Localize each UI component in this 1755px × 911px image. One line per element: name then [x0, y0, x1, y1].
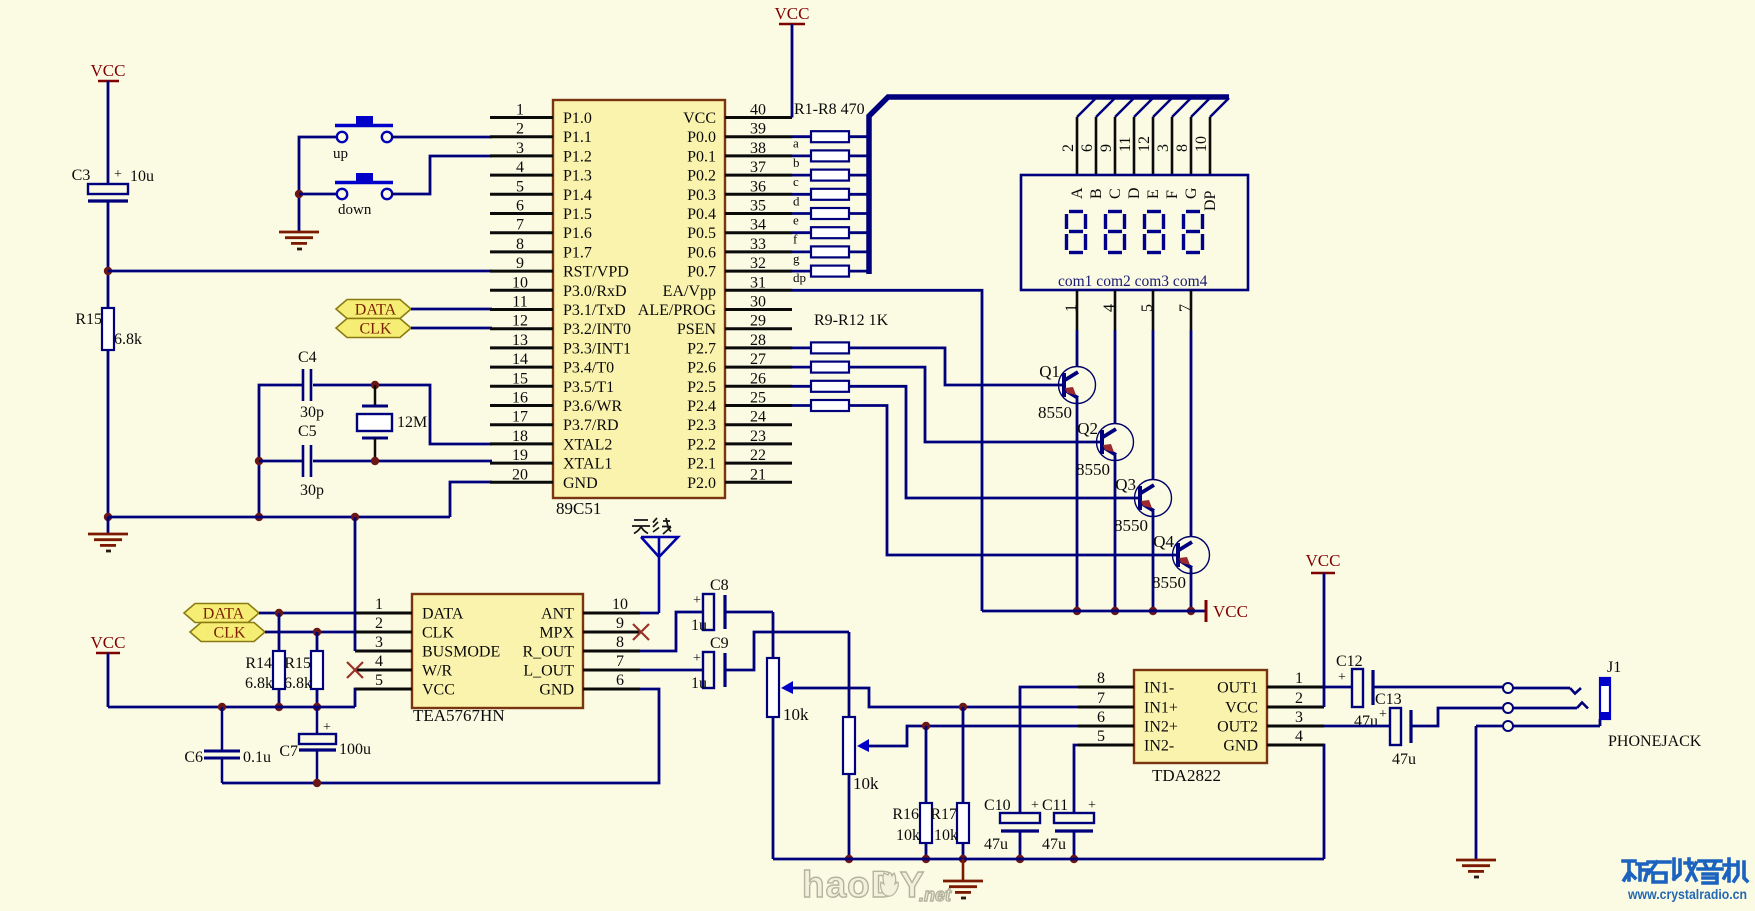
bus entry seg e	[1153, 98, 1172, 117]
svg-text:P0.0: P0.0	[687, 129, 716, 146]
wire R4 to bus	[849, 193, 867, 196]
svg-text:31: 31	[750, 274, 766, 291]
svg-text:4: 4	[1101, 304, 1118, 312]
svg-text:47u: 47u	[984, 836, 1008, 853]
wire Q2 emitter	[1114, 455, 1117, 611]
power symbol VCC (transistor rail)	[1206, 600, 1248, 622]
wire R12 to Q4 base	[849, 406, 1176, 556]
connector J1 phonejack	[1600, 659, 1702, 750]
junction ground rail left	[104, 513, 112, 521]
svg-text:IN1+: IN1+	[1144, 700, 1178, 717]
svg-text:10k: 10k	[934, 827, 958, 844]
IC U2 pin names	[422, 606, 574, 699]
transistor Q2	[1076, 419, 1134, 479]
svg-text:com1 com2 com3 com4: com1 com2 com3 com4	[1058, 273, 1208, 290]
svg-text:C8: C8	[710, 577, 729, 594]
wire P0.2 to R3	[792, 174, 811, 177]
svg-text:up: up	[333, 146, 348, 162]
wire com2 to Q2	[1114, 330, 1117, 424]
junction R17 rail	[959, 855, 967, 863]
svg-text:7: 7	[516, 217, 524, 234]
junction R16 rail	[922, 855, 930, 863]
wire P2.4 to R12	[792, 404, 811, 407]
svg-text:R15: R15	[284, 655, 311, 672]
junction node RST	[104, 267, 112, 275]
capacitor C6	[184, 707, 271, 783]
junction down button left	[295, 190, 303, 198]
wire down button left	[299, 193, 338, 196]
junction R15 rail	[313, 703, 321, 711]
flag CLK (MCU)	[336, 319, 411, 338]
svg-text:25: 25	[750, 390, 766, 407]
wire up button left	[299, 137, 337, 231]
svg-text:ALE/PROG: ALE/PROG	[638, 302, 717, 319]
wire P2.5 to R11	[792, 385, 811, 388]
svg-text:1: 1	[1063, 304, 1080, 312]
resistor R9	[811, 342, 849, 353]
svg-text:P3.3/INT1: P3.3/INT1	[563, 340, 631, 357]
svg-text:12: 12	[1136, 136, 1153, 152]
svg-text:P1.1: P1.1	[563, 129, 592, 146]
junction Q4 emitter rail	[1187, 607, 1195, 615]
svg-text:P0.2: P0.2	[687, 168, 716, 185]
svg-text:40: 40	[750, 102, 766, 119]
wire P0.4 to R5	[792, 212, 811, 215]
svg-text:P1.6: P1.6	[563, 225, 592, 242]
svg-text:A: A	[1069, 187, 1086, 199]
svg-text:47u: 47u	[1042, 836, 1066, 853]
wire R15 bottom	[316, 689, 319, 707]
svg-text:39: 39	[750, 121, 766, 138]
svg-text:+: +	[693, 651, 701, 666]
wire pin40 VCC	[791, 24, 794, 118]
svg-text:11: 11	[1117, 137, 1134, 152]
svg-text:P0.4: P0.4	[687, 206, 716, 223]
resistor R5	[793, 208, 849, 228]
svg-text:C: C	[1107, 188, 1124, 199]
svg-text:8550: 8550	[1114, 516, 1148, 535]
svg-text:20: 20	[512, 466, 528, 483]
svg-text:+: +	[114, 167, 122, 182]
jack pin tip circle	[1503, 683, 1513, 693]
wire tip contact	[1513, 688, 1581, 694]
wire Q4 emitter	[1190, 568, 1193, 611]
svg-text:C9: C9	[710, 635, 729, 652]
svg-text:P3.1/TxD: P3.1/TxD	[563, 302, 626, 319]
svg-text:P1.2: P1.2	[563, 148, 592, 165]
resistor R17	[930, 803, 969, 844]
junction XTAL1 left	[255, 457, 263, 465]
display pin 2	[1060, 117, 1077, 175]
svg-text:R9-R12 1K: R9-R12 1K	[814, 312, 889, 329]
svg-text:4: 4	[375, 653, 383, 670]
svg-text:P2.6: P2.6	[687, 360, 716, 377]
svg-text:P0.6: P0.6	[687, 244, 716, 261]
svg-text:36: 36	[750, 178, 766, 195]
svg-text:Q3: Q3	[1115, 475, 1136, 494]
svg-text:P3.2/INT0: P3.2/INT0	[563, 321, 631, 338]
wire com4 to Q4	[1190, 330, 1193, 537]
svg-text:P1.5: P1.5	[563, 206, 592, 223]
display pin 11	[1117, 117, 1134, 175]
display pin 10	[1193, 117, 1210, 175]
svg-text:R_OUT: R_OUT	[522, 644, 574, 661]
bus entry seg g	[1191, 98, 1210, 117]
wire pot2 wiper	[869, 726, 1078, 746]
svg-text:12: 12	[512, 313, 528, 330]
svg-text:5: 5	[516, 178, 524, 195]
wire TDA ground rail	[773, 745, 1324, 859]
wire ring contact	[1513, 703, 1588, 709]
power symbol VCC (TEA)	[91, 633, 126, 653]
svg-text:www.crystalradio.cn: www.crystalradio.cn	[1627, 886, 1747, 902]
svg-text:8550: 8550	[1152, 573, 1186, 592]
svg-text:VCC: VCC	[91, 633, 126, 652]
svg-text:1: 1	[375, 596, 383, 613]
display pin 12	[1136, 117, 1153, 175]
junction Q2 emitter rail	[1111, 607, 1119, 615]
wire TEA ground rail	[222, 689, 659, 783]
wire pot2 bottom	[848, 774, 851, 859]
svg-text:OUT2: OUT2	[1217, 719, 1258, 736]
svg-text:dp: dp	[793, 270, 806, 285]
svg-text:26: 26	[750, 370, 766, 387]
flag CLK (TEA)	[190, 623, 265, 642]
svg-text:6.8k: 6.8k	[114, 331, 142, 348]
svg-text:100u: 100u	[339, 741, 371, 758]
IC U1 left pins 1-20	[490, 102, 553, 484]
svg-text:22: 22	[750, 447, 766, 464]
wire antenna to ANT	[640, 612, 659, 615]
wire RST net	[108, 270, 492, 273]
svg-text:P0.5: P0.5	[687, 225, 716, 242]
svg-text:C4: C4	[298, 349, 317, 366]
svg-text:TDA2822: TDA2822	[1152, 766, 1221, 785]
junction R16 top	[922, 722, 930, 730]
jack pin sleeve circle	[1503, 721, 1513, 731]
svg-text:10: 10	[1193, 136, 1210, 152]
junction pot2 rail	[845, 855, 853, 863]
bus entry seg c	[1115, 98, 1134, 117]
IC U3 TDA2822 body	[1134, 670, 1267, 785]
display DS1 body	[1021, 175, 1248, 290]
power symbol VCC (pin40)	[775, 4, 810, 24]
wire R9 to Q1 base	[849, 348, 1062, 385]
jack pin ring circle	[1503, 703, 1513, 713]
svg-text:R16: R16	[892, 806, 919, 823]
svg-text:P0.7: P0.7	[687, 264, 716, 281]
wire up button to P1.1	[392, 136, 492, 139]
segment bus	[869, 97, 1229, 274]
svg-text:R15: R15	[75, 311, 102, 328]
svg-text:8550: 8550	[1076, 460, 1110, 479]
wire P0.7 to R8	[792, 270, 811, 273]
svg-text:10k: 10k	[896, 827, 920, 844]
wire R10 to Q2 base	[849, 367, 1100, 442]
svg-text:RST/VPD: RST/VPD	[563, 264, 629, 281]
svg-text:GND: GND	[1223, 738, 1258, 755]
svg-text:3: 3	[1155, 144, 1172, 152]
svg-text:11: 11	[512, 294, 527, 311]
wire Q1 emitter	[1076, 398, 1079, 611]
svg-text:1: 1	[516, 102, 524, 119]
wire DATA to P3.1	[411, 308, 492, 311]
IC U1 right pins 40-21	[725, 102, 792, 484]
resistor R4	[793, 189, 849, 209]
wire R16	[925, 726, 928, 859]
svg-text:B: B	[1088, 188, 1105, 199]
svg-text:2: 2	[375, 615, 383, 632]
svg-text:P3.5/T1: P3.5/T1	[563, 379, 614, 396]
svg-text:C13: C13	[1375, 691, 1402, 708]
junction CLK/R15	[313, 628, 321, 636]
junction R17 top	[959, 703, 967, 711]
bus entry seg dp	[1210, 98, 1229, 117]
svg-text:9: 9	[1098, 144, 1115, 152]
wire R_OUT to C8	[640, 612, 703, 651]
wire R14 top	[278, 613, 281, 651]
svg-text:P3.7/RD: P3.7/RD	[563, 417, 619, 434]
wire transistor VCC rail	[982, 610, 1206, 613]
transistor Q3	[1114, 475, 1172, 535]
svg-text:Q2: Q2	[1077, 419, 1098, 438]
svg-text:P2.7: P2.7	[687, 340, 716, 357]
svg-text:6.8k: 6.8k	[245, 675, 273, 692]
svg-text:28: 28	[750, 332, 766, 349]
svg-text:DATA: DATA	[422, 606, 464, 623]
IC U2 TEA5767HN body	[412, 594, 583, 725]
wire R7 to bus	[849, 250, 867, 253]
svg-text:12M: 12M	[397, 414, 427, 431]
power symbol VCC (TDA)	[1306, 551, 1341, 573]
display pin 3	[1155, 117, 1172, 175]
wire P2.6 to R10	[792, 366, 811, 369]
svg-text:R1-R8 470: R1-R8 470	[794, 101, 865, 118]
svg-text:18: 18	[512, 428, 528, 445]
wire R11 to Q3 base	[849, 386, 1138, 498]
wire R3 to bus	[849, 174, 867, 177]
svg-text:10: 10	[612, 596, 628, 613]
resistor R2	[793, 150, 849, 170]
transistor Q1	[1038, 362, 1096, 422]
resistor R12	[811, 400, 849, 411]
wire C11 to rail	[1073, 831, 1076, 859]
wire P2.7 to R9	[792, 346, 811, 349]
svg-text:PSEN: PSEN	[677, 321, 717, 338]
svg-text:L_OUT: L_OUT	[523, 663, 574, 680]
junction C10 rail	[1016, 855, 1024, 863]
display pin 8	[1174, 117, 1191, 175]
wire OUT1 to C12	[1324, 686, 1352, 689]
wire CLK to P3.2	[411, 327, 492, 330]
wire sleeve to ground	[1476, 726, 1502, 859]
svg-text:OUT1: OUT1	[1217, 680, 1258, 697]
svg-text:Q4: Q4	[1153, 532, 1174, 551]
svg-text:BUSMODE: BUSMODE	[422, 644, 500, 661]
ground symbol (buttons)	[279, 232, 319, 249]
svg-text:2: 2	[1295, 690, 1303, 707]
svg-text:14: 14	[512, 351, 528, 368]
wire EA/Vpp to VCC rail	[792, 290, 982, 611]
svg-text:E: E	[1145, 189, 1162, 199]
resistor R10	[811, 362, 849, 373]
wire DATA to TEA pin1	[259, 612, 355, 615]
svg-text:29: 29	[750, 313, 766, 330]
svg-text:VCC: VCC	[1213, 602, 1248, 621]
svg-text:13: 13	[512, 332, 528, 349]
svg-text:7: 7	[1177, 304, 1194, 312]
svg-text:38: 38	[750, 140, 766, 157]
IC U3 left pins	[1078, 670, 1134, 745]
svg-text:19: 19	[512, 447, 528, 464]
svg-text:DATA: DATA	[203, 606, 245, 623]
svg-text:PHONEJACK: PHONEJACK	[1608, 733, 1702, 750]
bus entry seg b	[1096, 98, 1115, 117]
potentiometer RP2 10k	[843, 717, 879, 793]
svg-text:7: 7	[616, 653, 624, 670]
svg-text:+: +	[693, 593, 701, 608]
svg-text:6.8k: 6.8k	[284, 675, 312, 692]
svg-text:2: 2	[1060, 144, 1077, 152]
svg-text:CLK: CLK	[422, 625, 454, 642]
display com2 pin	[1101, 290, 1118, 330]
display pin 6	[1079, 117, 1096, 175]
svg-text:P3.0/RxD: P3.0/RxD	[563, 283, 627, 300]
ground symbol (left)	[88, 517, 128, 551]
display com labels	[1058, 273, 1208, 290]
svg-text:6: 6	[1079, 144, 1096, 152]
svg-text:G: G	[1183, 187, 1200, 199]
svg-text:c: c	[793, 174, 799, 189]
wire C9 to pot2 top	[725, 632, 849, 717]
svg-text:0.1u: 0.1u	[243, 749, 271, 766]
svg-text:P1.4: P1.4	[563, 187, 592, 204]
wire C12 to jack tip	[1373, 686, 1503, 689]
svg-text:27: 27	[750, 351, 766, 368]
svg-text:C5: C5	[298, 423, 317, 440]
svg-text:J1: J1	[1607, 659, 1621, 676]
svg-text:VCC: VCC	[683, 110, 716, 127]
svg-text:P1.7: P1.7	[563, 244, 592, 261]
wire C3 to R15	[107, 202, 110, 308]
transistor Q4	[1152, 532, 1210, 592]
svg-text:8: 8	[616, 634, 624, 651]
svg-text:33: 33	[750, 236, 766, 253]
svg-text:P2.5: P2.5	[687, 379, 716, 396]
resistor R8	[793, 266, 849, 286]
crystal Y1 12M	[357, 385, 427, 461]
svg-text:VCC: VCC	[91, 61, 126, 80]
junction C4C5 rail	[255, 513, 263, 521]
wire C8 to pot1	[725, 612, 773, 658]
wire ground rail	[108, 482, 492, 517]
flag DATA (TEA)	[184, 604, 259, 623]
svg-text:9: 9	[516, 255, 524, 272]
display segment letters	[1069, 187, 1219, 211]
wire R8 to bus	[849, 270, 867, 273]
watermark haodiy	[802, 864, 952, 905]
svg-text:P2.0: P2.0	[687, 475, 716, 492]
wire XTAL1 net	[259, 460, 492, 463]
svg-text:17: 17	[512, 409, 528, 426]
IC U3 right pins	[1267, 670, 1324, 745]
svg-text:+: +	[1088, 798, 1096, 813]
svg-text:P2.2: P2.2	[687, 436, 716, 453]
wire com1 to Q1	[1076, 330, 1079, 367]
capacitor C4	[298, 349, 324, 421]
capacitor C12	[1336, 653, 1378, 730]
ground symbol (TDA)	[943, 859, 983, 898]
junction crystal top	[371, 381, 379, 389]
bus entry seg f	[1172, 98, 1191, 117]
svg-text:P3.4/T0: P3.4/T0	[563, 360, 614, 377]
svg-text:2: 2	[516, 121, 524, 138]
IC U3 pin names	[1144, 680, 1258, 755]
svg-text:10k: 10k	[853, 774, 879, 793]
display com1 pin	[1063, 290, 1080, 330]
potentiometer RP1 10k	[767, 658, 809, 724]
wire R15 top	[316, 632, 319, 651]
svg-text:VCC: VCC	[775, 4, 810, 23]
svg-text:1u: 1u	[691, 617, 707, 634]
svg-text:C10: C10	[984, 797, 1011, 814]
wire R17	[962, 707, 965, 859]
junction R14 rail	[275, 703, 283, 711]
svg-text:15: 15	[512, 370, 528, 387]
no-connect X W/R	[347, 662, 363, 678]
svg-text:9: 9	[616, 615, 624, 632]
svg-text:+: +	[1379, 707, 1387, 722]
display digits	[1067, 212, 1203, 253]
IC U1 pin names	[563, 110, 716, 492]
svg-text:DATA: DATA	[355, 302, 397, 319]
wire P0.5 to R6	[792, 231, 811, 234]
svg-text:3: 3	[516, 140, 524, 157]
wire P0.6 to R7	[792, 250, 811, 253]
junction C11 rail	[1070, 855, 1078, 863]
wire C13 to jack ring	[1411, 708, 1502, 726]
svg-text:DP: DP	[1202, 190, 1219, 211]
svg-text:.net: .net	[919, 885, 952, 905]
resistor R1	[793, 131, 849, 151]
svg-text:16: 16	[512, 390, 528, 407]
svg-text:8: 8	[1097, 670, 1105, 687]
display com3 pin	[1139, 290, 1156, 330]
svg-text:XTAL2: XTAL2	[563, 436, 612, 453]
svg-text:10: 10	[512, 274, 528, 291]
resistor R3	[793, 170, 849, 190]
svg-text:down: down	[338, 202, 372, 218]
power symbol VCC (top left)	[91, 61, 126, 81]
IC U1 89C51 body	[553, 100, 725, 518]
svg-text:C6: C6	[184, 749, 203, 766]
svg-text:8: 8	[1174, 144, 1191, 152]
wire R2 to bus	[849, 154, 867, 157]
junction rail mid	[351, 513, 359, 521]
bus entry seg d	[1134, 98, 1153, 117]
pushbutton down	[335, 173, 393, 218]
resistor R16	[892, 803, 932, 844]
svg-text:89C51: 89C51	[556, 499, 601, 518]
wire IN1- to C10	[1020, 687, 1078, 813]
svg-text:6: 6	[516, 198, 524, 215]
svg-text:CLK: CLK	[360, 321, 392, 338]
svg-text:47u: 47u	[1354, 713, 1378, 730]
svg-text:10u: 10u	[130, 168, 154, 185]
svg-text:4: 4	[1295, 728, 1303, 745]
display com4 pin	[1177, 290, 1194, 330]
capacitor C8	[691, 577, 729, 634]
